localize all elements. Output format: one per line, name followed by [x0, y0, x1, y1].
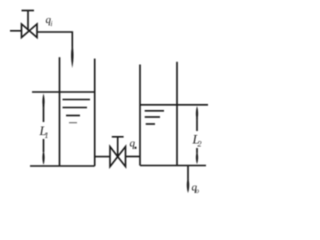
svg-text:i: i [51, 20, 53, 28]
svg-text:1: 1 [45, 131, 49, 140]
svg-text:2: 2 [198, 140, 202, 149]
svg-text:o: o [196, 187, 200, 195]
